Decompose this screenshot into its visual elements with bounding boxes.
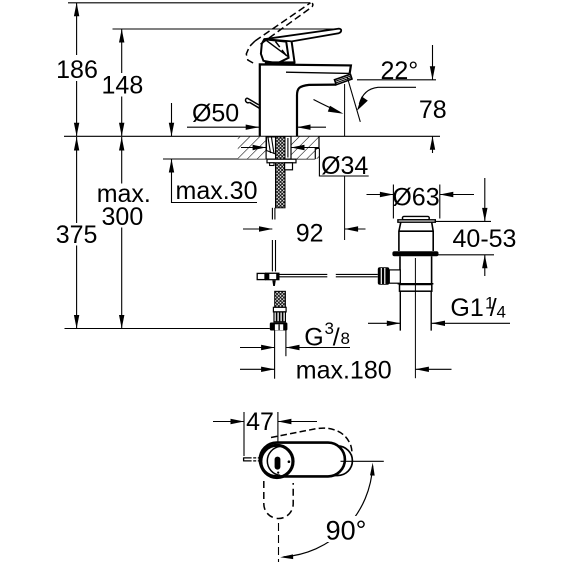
40-53 bottom reference line [437,254,494,256]
dimension line O50 [187,126,326,128]
reference line top of open handle [64,3,494,329]
lever cap bar [265,61,296,64]
reference line top of closed handle [113,28,340,30]
centerline through spout [341,460,353,462]
svg-text:max.180: max.180 [296,357,392,385]
counter bottom reference line [163,158,315,160]
drain body [400,256,432,283]
handle rotated down dashed outline [264,481,293,519]
dimension line max180 [240,368,452,370]
rod tip [272,280,276,286]
drain bottom rim [398,283,434,285]
top view centerline [342,460,384,462]
dimension line G3/8 [240,347,350,349]
svg-text:40-53: 40-53 [453,225,517,253]
top plate front seam [286,72,350,73]
svg-text:G: G [304,324,323,352]
dimension 375 [76,137,78,329]
bottom reference line 375 [65,328,270,330]
base circle top view [261,445,293,477]
svg-text:8: 8 [341,329,350,348]
pop-up rod below break [271,240,273,271]
faucet body side view [246,3,352,137]
mounting hole right edge [290,136,292,159]
dimension max300 [121,137,123,329]
svg-text:4: 4 [497,303,506,322]
G3/8 thread pipe [275,330,286,378]
clamp bolt [267,137,276,154]
22deg slant line [347,77,360,122]
top view group [244,428,384,562]
aerator [335,74,353,85]
mounting hole left edge [265,136,267,159]
drain knob stem [389,270,400,283]
svg-text:Ø63: Ø63 [392,184,439,212]
lever face [261,39,289,63]
body left edge and top plate [260,64,351,136]
dimension 78 [432,45,434,153]
threaded shank [276,137,286,208]
counter right step [315,136,319,159]
pop-up tee fitting [257,273,265,279]
svg-text:92: 92 [296,220,324,248]
svg-text:Ø50: Ø50 [192,100,239,128]
22deg extension line from aerator [344,84,346,240]
lever stem [292,41,295,63]
svg-text:Ø34: Ø34 [321,152,368,180]
svg-text:max.30: max.30 [176,177,258,205]
washer under counter [267,159,296,163]
40-53 top reference line [432,220,491,222]
retaining hook left [246,98,260,108]
svg-text:G1: G1 [450,294,483,322]
dimension max30 [172,103,258,203]
horizontal pop-up rod [280,274,378,276]
shank right guide [287,138,289,158]
dimension 40-53 [484,178,486,276]
svg-text:47: 47 [246,408,274,436]
dimension line G1 1/4 [368,322,510,324]
svg-text:22°: 22° [380,57,418,85]
dimension line O63 with extension lines [367,185,475,219]
lever slot mark [275,457,281,470]
drain center line [414,258,416,378]
handle top view [260,443,345,477]
spout top view [300,446,352,476]
drain neck [399,222,433,251]
drain knob knurled [378,267,390,285]
deck reference line [64,135,440,137]
supply pipe upper [272,208,275,272]
body right edge and spout underside [297,85,336,137]
hose connector nut G3/8 [270,323,288,331]
threaded shank and mounting below deck [257,137,378,379]
countertop section with hatching [238,136,319,159]
drain plug cap [402,216,429,219]
arrowheads [74,3,488,424]
svg-text:186: 186 [56,56,98,84]
svg-text:78: 78 [419,96,447,124]
lever blade [264,29,341,42]
nut right [285,163,293,170]
handle rotated dashed outline [271,428,352,454]
spout left cap arc [267,446,280,475]
90deg arc [284,466,373,557]
flexible hose [275,291,286,307]
svg-text:375: 375 [56,221,98,249]
dot mark [288,460,291,463]
22deg curved leaders [314,87,417,112]
nut left [270,163,274,166]
spout outlet reference line 22deg/78 [357,79,436,81]
white knockout behind 90 deg label [322,516,370,542]
side tab top view [244,457,262,461]
svg-text:300: 300 [102,203,144,231]
dimension line O34 [241,148,369,177]
drain flange ring [392,251,438,256]
dimension line 92 [243,228,366,230]
vertical center dash line [278,523,280,562]
svg-text:90°: 90° [326,516,367,546]
raised handle dashed [246,3,313,64]
svg-text:/: / [333,324,340,352]
dimension 186 [77,3,510,456]
drain assembly [345,77,439,378]
dimension 47 extension+line [213,412,317,456]
drain tail pipe G1 1/4 [400,291,431,330]
dimension 148 [121,29,123,136]
svg-text:148: 148 [102,72,144,100]
